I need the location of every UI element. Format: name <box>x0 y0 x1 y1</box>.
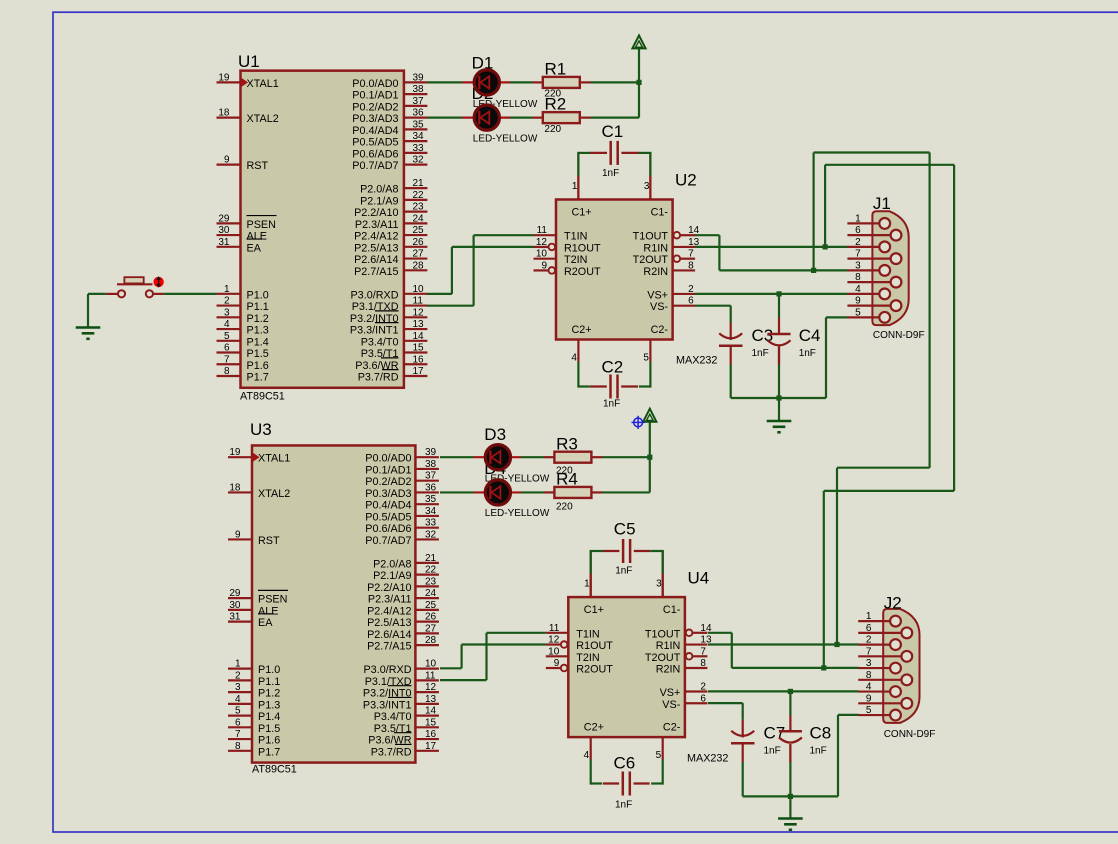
U1 pin 7 P1.6 <box>217 363 241 365</box>
svg-text:P3.3/INT1: P3.3/INT1 <box>350 325 399 337</box>
U1 pin 12 P3.2/INT0 <box>404 316 428 318</box>
J2 pin 7 <box>858 655 901 657</box>
svg-text:P3.0/RXD: P3.0/RXD <box>350 289 398 301</box>
junction J1 pin2 net <box>823 244 828 249</box>
svg-text:VS+: VS+ <box>647 289 668 301</box>
U1 pin 26 P2.5/A13 <box>404 246 428 248</box>
svg-text:U2: U2 <box>675 171 697 190</box>
wire U1 P3.1/TXD to U2 T1IN <box>427 305 474 307</box>
wire bottom link R1IN-net horizontal <box>824 490 954 492</box>
svg-text:8: 8 <box>688 260 694 271</box>
svg-text:P0.2/AD2: P0.2/AD2 <box>352 101 398 113</box>
svg-text:9: 9 <box>541 260 547 271</box>
svg-text:23: 23 <box>413 202 425 213</box>
svg-text:P0.6/AD6: P0.6/AD6 <box>365 523 411 535</box>
U2 pin 13 R1IN <box>673 246 696 248</box>
svg-text:T2IN: T2IN <box>576 652 599 664</box>
svg-text:P2.2/A10: P2.2/A10 <box>354 207 398 219</box>
wire J2 pin5 to ground rail <box>837 715 839 797</box>
svg-text:15: 15 <box>425 717 437 728</box>
junction J2 pin2 net <box>834 642 839 647</box>
svg-text:1nF: 1nF <box>615 800 632 811</box>
U3 pin 10 P3.0/RXD <box>415 668 439 670</box>
svg-text:17: 17 <box>425 741 437 752</box>
power +V arrow <box>632 35 645 48</box>
svg-text:3: 3 <box>224 307 230 318</box>
svg-text:7: 7 <box>855 249 861 260</box>
svg-text:11: 11 <box>425 670 436 681</box>
junction ground rail bottom <box>788 794 793 799</box>
svg-text:220: 220 <box>544 124 561 135</box>
J1 pin 4 <box>847 293 879 295</box>
U3 pin 37 P0.2/AD2 <box>415 480 439 482</box>
svg-text:P0.5/AD5: P0.5/AD5 <box>352 137 398 149</box>
svg-text:11: 11 <box>549 623 560 634</box>
U4 pin 13 R1IN <box>685 643 708 645</box>
svg-text:P1.7: P1.7 <box>258 746 280 758</box>
wire U1 P3.0/RXD to U2 R1OUT <box>427 293 452 295</box>
svg-text:C5: C5 <box>614 520 636 539</box>
svg-text:26: 26 <box>413 237 425 248</box>
capacitor C1 <box>590 152 607 154</box>
wire right long vertical T1OUT-net <box>928 153 930 468</box>
svg-text:9: 9 <box>235 529 241 540</box>
svg-text:38: 38 <box>425 459 437 470</box>
svg-text:T2OUT: T2OUT <box>633 254 669 266</box>
connector J1 CONN-D9F body <box>872 211 908 325</box>
svg-text:1: 1 <box>235 659 241 670</box>
svg-text:P2.5/A13: P2.5/A13 <box>367 617 411 629</box>
U1 pin 10 P3.0/RXD <box>404 293 428 295</box>
svg-text:T2OUT: T2OUT <box>645 652 681 664</box>
svg-text:P3.7/RD: P3.7/RD <box>358 372 399 384</box>
svg-text:37: 37 <box>413 96 425 107</box>
svg-text:8: 8 <box>224 366 230 377</box>
svg-text:XTAL2: XTAL2 <box>258 488 290 500</box>
U3 XTAL1 clock arrow <box>254 454 259 461</box>
svg-text:5: 5 <box>866 705 872 716</box>
svg-text:T2IN: T2IN <box>564 254 587 266</box>
svg-text:P0.3/AD3: P0.3/AD3 <box>365 488 411 500</box>
U2 pin 14 T1OUT <box>674 232 681 239</box>
J2 pin 5 <box>858 714 890 716</box>
LED D2 <box>463 117 511 119</box>
junction VS+ / C4 <box>776 291 781 296</box>
svg-text:30: 30 <box>229 600 241 611</box>
svg-text:XTAL1: XTAL1 <box>247 78 279 90</box>
svg-text:EA: EA <box>247 242 262 254</box>
svg-text:J1: J1 <box>873 194 891 213</box>
wire vertical down to J2 pin2 net <box>836 468 838 645</box>
svg-text:2: 2 <box>866 635 872 646</box>
wire U4 VS+ to J2 pin4 <box>708 690 859 692</box>
U1 pin 39 P0.0/AD0 <box>404 81 428 83</box>
wire D1 to R1 <box>510 81 534 83</box>
wire top link T1OUT-net horizontal <box>814 151 930 153</box>
svg-text:12: 12 <box>413 307 425 318</box>
J2 pin 6 <box>858 632 901 634</box>
svg-text:33: 33 <box>413 143 425 154</box>
svg-text:12: 12 <box>536 237 548 248</box>
svg-text:P0.4/AD4: P0.4/AD4 <box>352 125 398 137</box>
svg-text:25: 25 <box>413 225 425 236</box>
junction J1 pin3 net <box>811 268 816 273</box>
svg-text:30: 30 <box>218 225 230 236</box>
J1 pin 2 <box>847 246 879 248</box>
svg-text:12: 12 <box>548 635 560 646</box>
U3 pin 25 P2.4/A12 <box>415 609 439 611</box>
LED D4 <box>474 491 521 493</box>
U2 pin 4 C2+ lead <box>577 340 579 362</box>
svg-text:21: 21 <box>413 178 425 189</box>
wire D3 to R3 <box>521 456 545 458</box>
svg-text:27: 27 <box>425 623 437 634</box>
svg-text:29: 29 <box>229 588 241 599</box>
svg-text:P2.4/A12: P2.4/A12 <box>367 605 411 617</box>
svg-text:P2.4/A12: P2.4/A12 <box>354 231 398 243</box>
U1 pin 22 P2.1/A9 <box>404 199 428 201</box>
wire U2 VS- to C3 <box>695 305 731 307</box>
U2 pin 9 R2OUT <box>549 267 556 274</box>
J1 pin 8 <box>847 281 890 283</box>
svg-text:P1.1: P1.1 <box>247 301 269 313</box>
U3 pin 12 P3.2/INT0 <box>415 691 439 693</box>
svg-text:4: 4 <box>571 353 577 364</box>
svg-text:1nF: 1nF <box>799 348 816 359</box>
svg-text:P1.3: P1.3 <box>247 325 269 337</box>
svg-text:34: 34 <box>425 506 437 517</box>
wire U3 P3.1/TXD to U4 T1IN <box>440 679 487 681</box>
U3 pin 18 XTAL2 <box>228 491 252 493</box>
wire U2 pin4/pin5 to C2 <box>577 362 579 388</box>
U1 pin 2 P1.1 <box>217 304 241 306</box>
wire C8 bottom to ground rail <box>789 744 791 796</box>
svg-text:C2-: C2- <box>651 324 669 336</box>
U3 pin 15 P3.5/T1 <box>415 726 439 728</box>
svg-text:6: 6 <box>700 693 706 704</box>
U4 pin 9 R2OUT <box>561 665 568 672</box>
wire VCC vertical <box>638 48 640 117</box>
svg-text:1: 1 <box>866 611 872 622</box>
svg-text:5: 5 <box>643 353 649 364</box>
junction at VCC branch <box>636 80 641 85</box>
U1 pin 29 PSEN <box>217 222 241 224</box>
svg-text:T1OUT: T1OUT <box>633 231 669 243</box>
svg-text:T1IN: T1IN <box>576 628 599 640</box>
U1 pin 19 XTAL1 <box>217 81 241 83</box>
svg-text:35: 35 <box>425 494 437 505</box>
U2 pin 2 VS+ <box>673 293 696 295</box>
svg-text:P2.0/A8: P2.0/A8 <box>360 184 398 196</box>
wire vertical down to J2 pin3 net <box>823 491 825 668</box>
U4 pin 12 R1OUT <box>561 641 568 648</box>
U1 pin 21 P2.0/A8 <box>404 187 428 189</box>
U2 pin 8 R2IN <box>673 269 696 271</box>
U1 pin 9 RST <box>217 164 241 166</box>
svg-text:8: 8 <box>700 658 706 669</box>
svg-text:14: 14 <box>688 225 700 236</box>
svg-text:35: 35 <box>413 119 425 130</box>
J2 pin 4 <box>858 690 890 692</box>
svg-text:P1.1: P1.1 <box>258 676 280 688</box>
svg-text:6: 6 <box>688 296 694 307</box>
wire top link R1IN-net horizontal <box>825 164 954 166</box>
svg-text:R2OUT: R2OUT <box>576 664 613 676</box>
svg-text:P1.5: P1.5 <box>258 723 280 735</box>
U3 pin 34 P0.5/AD5 <box>415 515 439 517</box>
svg-text:C2-: C2- <box>663 722 681 734</box>
svg-text:1: 1 <box>572 181 578 192</box>
wire C3 bottom to ground rail <box>730 365 732 399</box>
svg-text:P2.2/A10: P2.2/A10 <box>367 582 411 594</box>
svg-text:39: 39 <box>413 72 425 83</box>
U1 pin 35 P0.4/AD4 <box>404 128 428 130</box>
svg-text:C2: C2 <box>602 358 624 377</box>
U4 pin 1 C1+ lead <box>590 551 592 597</box>
svg-text:7: 7 <box>224 354 230 365</box>
svg-text:P0.0/AD0: P0.0/AD0 <box>365 453 411 465</box>
U1 pin 18 XTAL2 <box>217 117 241 119</box>
U1 pin 25 P2.4/A12 <box>404 234 428 236</box>
svg-text:24: 24 <box>413 213 425 224</box>
U3 pin 19 XTAL1 <box>228 456 252 458</box>
svg-text:AT89C51: AT89C51 <box>240 391 285 403</box>
wire D4 to R4 <box>521 491 545 493</box>
MAX232 U2 body <box>556 200 673 340</box>
button actuator marker <box>153 277 163 287</box>
J2 pin 2 <box>858 643 890 645</box>
svg-text:ALE: ALE <box>247 231 267 243</box>
svg-text:C8: C8 <box>810 724 832 743</box>
wire C4 top lead green <box>778 294 780 318</box>
svg-text:R2: R2 <box>545 95 567 114</box>
U2 pin 3 C1- lead <box>649 153 651 200</box>
svg-text:P0.5/AD5: P0.5/AD5 <box>365 511 411 523</box>
svg-text:18: 18 <box>218 108 230 119</box>
U3 pin 24 P2.3/A11 <box>415 597 439 599</box>
U1 pin 36 P0.3/AD3 <box>404 117 428 119</box>
svg-text:11: 11 <box>537 225 548 236</box>
svg-text:P2.7/A15: P2.7/A15 <box>367 641 411 653</box>
svg-text:MAX232: MAX232 <box>687 753 728 765</box>
resistor R3 body <box>544 456 554 458</box>
svg-text:10: 10 <box>548 646 560 657</box>
svg-text:1nF: 1nF <box>603 399 620 410</box>
svg-text:C1+: C1+ <box>584 604 604 616</box>
U4 pin 5 C2- lead <box>662 737 664 759</box>
svg-text:T1OUT: T1OUT <box>645 628 681 640</box>
svg-text:2: 2 <box>688 284 694 295</box>
svg-text:10: 10 <box>536 249 548 260</box>
svg-text:28: 28 <box>425 635 437 646</box>
svg-text:25: 25 <box>425 600 437 611</box>
ground rail top section <box>731 397 826 399</box>
svg-text:P2.6/A14: P2.6/A14 <box>367 629 411 641</box>
resistor R2 body <box>533 117 543 119</box>
svg-text:R2IN: R2IN <box>643 266 668 278</box>
svg-text:P1.2: P1.2 <box>247 313 269 325</box>
resistor R1 body <box>533 81 543 83</box>
svg-text:8: 8 <box>855 272 861 283</box>
svg-text:7: 7 <box>688 249 694 260</box>
U1 pin 8 P1.7 <box>217 375 241 377</box>
wire D2 to R2 <box>510 117 534 119</box>
svg-text:37: 37 <box>425 471 437 482</box>
J1 pin 9 <box>847 305 890 307</box>
U1 pin 16 P3.6/WR <box>404 363 428 365</box>
wire U3 P3.0/RXD to U4 R1OUT <box>440 667 462 669</box>
svg-text:P0.4/AD4: P0.4/AD4 <box>365 500 411 512</box>
capacitor C3 <box>730 323 732 341</box>
U3 pin 36 P0.3/AD3 <box>415 491 439 493</box>
U3 pin 29 PSEN <box>228 597 252 599</box>
wire U2 pin1 to C1 <box>577 152 591 154</box>
svg-text:P2.1/A9: P2.1/A9 <box>373 570 411 582</box>
U1 pin 5 P1.4 <box>217 340 241 342</box>
svg-text:VS-: VS- <box>650 301 668 313</box>
svg-text:P0.1/AD1: P0.1/AD1 <box>365 464 411 476</box>
U3 pin 35 P0.4/AD4 <box>415 503 439 505</box>
svg-text:13: 13 <box>413 319 425 330</box>
MCU U3 AT89C51 body <box>252 445 415 762</box>
svg-text:C2+: C2+ <box>584 722 604 734</box>
wire R2 to VCC branch <box>590 117 639 119</box>
svg-text:P3.4/T0: P3.4/T0 <box>374 711 412 723</box>
svg-text:PSEN: PSEN <box>247 219 276 231</box>
U3 pin 8 P1.7 <box>228 750 252 752</box>
svg-text:R1IN: R1IN <box>656 640 681 652</box>
svg-text:15: 15 <box>413 343 425 354</box>
U4 pin 14 T1OUT <box>686 630 693 637</box>
svg-text:CONN-D9F: CONN-D9F <box>884 729 936 740</box>
U3 pin 1 P1.0 <box>228 668 252 670</box>
svg-text:36: 36 <box>425 482 437 493</box>
U1 pin 38 P0.1/AD1 <box>404 93 428 95</box>
svg-text:P1.4: P1.4 <box>247 336 269 348</box>
MCU U1 AT89C51 body <box>241 71 404 388</box>
svg-text:4: 4 <box>855 284 861 295</box>
svg-text:P1.6: P1.6 <box>247 360 269 372</box>
svg-text:R1OUT: R1OUT <box>564 242 601 254</box>
wire ground drop <box>778 398 780 421</box>
wire R4 to VCC branch <box>602 491 650 493</box>
svg-text:2: 2 <box>700 682 706 693</box>
U4 pin 11 T1IN <box>546 632 569 634</box>
svg-text:2: 2 <box>224 296 230 307</box>
svg-text:10: 10 <box>413 284 425 295</box>
svg-text:31: 31 <box>229 612 241 623</box>
U1 pin 17 P3.7/RD <box>404 375 428 377</box>
U2 pin 1 C1+ lead <box>577 153 579 200</box>
svg-text:3: 3 <box>855 260 861 271</box>
svg-text:28: 28 <box>413 260 425 271</box>
svg-text:32: 32 <box>413 155 425 166</box>
svg-text:4: 4 <box>235 694 241 705</box>
svg-text:11: 11 <box>413 296 424 307</box>
svg-text:P0.6/AD6: P0.6/AD6 <box>352 148 398 160</box>
J1 pin 1 <box>847 222 879 224</box>
svg-text:P2.7/A15: P2.7/A15 <box>354 266 398 278</box>
svg-text:4: 4 <box>584 750 590 761</box>
svg-text:P2.1/A9: P2.1/A9 <box>360 195 398 207</box>
wire U2 T1OUT to J1 pin3 <box>695 234 719 236</box>
svg-text:P0.2/AD2: P0.2/AD2 <box>365 476 411 488</box>
svg-text:P1.0: P1.0 <box>247 289 269 301</box>
svg-text:P0.7/AD7: P0.7/AD7 <box>365 535 411 547</box>
svg-text:R1: R1 <box>545 59 567 78</box>
wire R1 to VCC junction <box>590 81 639 83</box>
J1 pin 5 <box>847 316 879 318</box>
U3 pin 32 P0.7/AD7 <box>415 538 439 540</box>
svg-text:P1.0: P1.0 <box>258 664 280 676</box>
svg-text:5: 5 <box>656 750 662 761</box>
U1 pin 32 P0.7/AD7 <box>404 164 428 166</box>
capacitor C2 <box>590 385 607 387</box>
svg-text:CONN-D9F: CONN-D9F <box>873 330 925 341</box>
svg-text:9: 9 <box>855 296 861 307</box>
svg-text:6: 6 <box>224 343 230 354</box>
U4 pin 6 VS- <box>685 702 708 704</box>
svg-text:23: 23 <box>425 576 437 587</box>
U3 pin 11 P3.1/TXD <box>415 679 439 681</box>
svg-text:4: 4 <box>224 319 230 330</box>
svg-text:13: 13 <box>425 694 437 705</box>
svg-text:220: 220 <box>556 502 573 513</box>
J2 pin 3 <box>858 667 890 669</box>
junction ground rail <box>776 395 781 400</box>
U2 pin 11 T1IN <box>534 234 557 236</box>
U1 pin 30 ALE <box>217 234 241 236</box>
svg-text:1: 1 <box>584 579 590 590</box>
U3 pin 3 P1.2 <box>228 691 252 693</box>
U1 pin 34 P0.5/AD5 <box>404 140 428 142</box>
J2 pin 1 <box>858 620 890 622</box>
svg-text:6: 6 <box>235 717 241 728</box>
wire U2 R1IN to J1 pin2 <box>695 246 848 248</box>
svg-text:21: 21 <box>425 553 437 564</box>
U1 pin 14 P3.4/T0 <box>404 340 428 342</box>
U3 pin 16 P3.6/WR <box>415 738 439 740</box>
U3 pin 22 P2.1/A9 <box>415 574 439 576</box>
U3 pin 17 P3.7/RD <box>415 750 439 752</box>
svg-text:D3: D3 <box>484 425 506 444</box>
U1 pin 1 P1.0 <box>217 293 241 295</box>
svg-text:VS-: VS- <box>662 699 680 711</box>
U3 pin 26 P2.5/A13 <box>415 621 439 623</box>
svg-text:1nF: 1nF <box>602 168 619 179</box>
svg-text:2: 2 <box>235 670 241 681</box>
svg-text:16: 16 <box>413 354 425 365</box>
junction VCC bottom <box>647 455 652 460</box>
svg-text:8: 8 <box>866 670 872 681</box>
svg-text:XTAL2: XTAL2 <box>247 113 279 125</box>
U1 pin 37 P0.2/AD2 <box>404 105 428 107</box>
svg-text:P1.4: P1.4 <box>258 711 280 723</box>
U4 pin 2 VS+ <box>685 690 708 692</box>
svg-text:C1-: C1- <box>651 207 669 219</box>
U3 pin 39 P0.0/AD0 <box>415 456 439 458</box>
svg-text:P3.7/RD: P3.7/RD <box>371 746 412 758</box>
svg-text:19: 19 <box>218 72 230 83</box>
svg-text:P0.1/AD1: P0.1/AD1 <box>352 90 398 102</box>
svg-text:R2OUT: R2OUT <box>564 266 601 278</box>
svg-text:5: 5 <box>855 307 861 318</box>
svg-text:12: 12 <box>425 682 437 693</box>
wire U4 pin1 to C5 <box>590 550 604 552</box>
J1 pin 6 <box>847 234 890 236</box>
svg-text:C1: C1 <box>602 122 624 141</box>
svg-text:22: 22 <box>413 190 425 201</box>
